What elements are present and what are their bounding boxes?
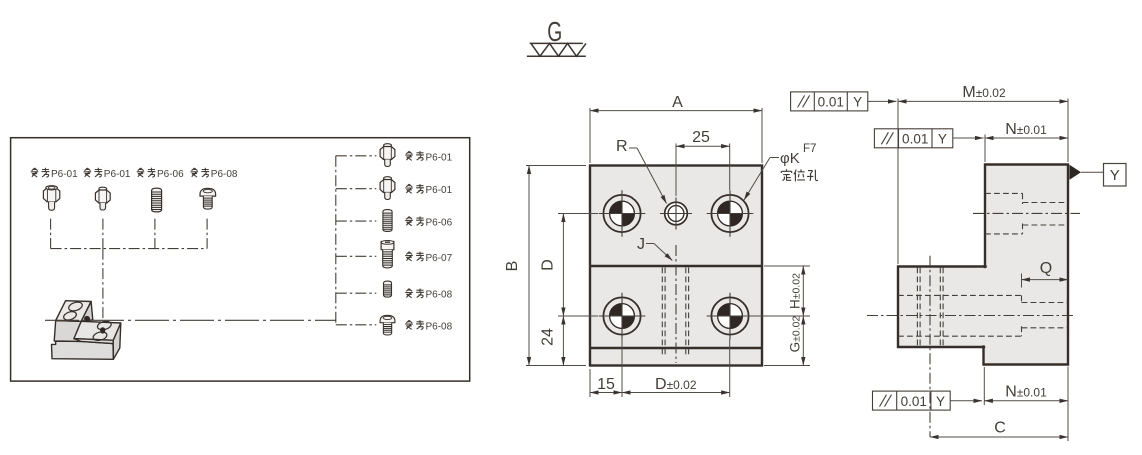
- svg-text:G±0.02: G±0.02: [788, 315, 803, 352]
- svg-text:P6-01: P6-01: [51, 169, 78, 180]
- svg-text:A: A: [672, 94, 683, 111]
- svg-text:B: B: [504, 261, 521, 272]
- svg-text:J: J: [637, 236, 645, 253]
- svg-text:D±0.02: D±0.02: [655, 376, 697, 393]
- svg-text:P6-07: P6-07: [426, 253, 453, 264]
- svg-text:P6-08: P6-08: [426, 290, 453, 301]
- svg-text:P6-08: P6-08: [211, 169, 238, 180]
- svg-text:F7: F7: [803, 143, 816, 155]
- svg-text:P6-01: P6-01: [426, 152, 453, 163]
- svg-text:φK: φK: [780, 150, 800, 167]
- svg-text:25: 25: [692, 129, 710, 146]
- svg-text:H±0.02: H±0.02: [788, 273, 803, 309]
- svg-text:0.01: 0.01: [818, 95, 844, 110]
- svg-text:P6-08: P6-08: [426, 321, 453, 332]
- svg-text:Y: Y: [938, 132, 947, 147]
- svg-text:Q: Q: [1040, 260, 1052, 277]
- svg-text:N±0.01: N±0.01: [1005, 384, 1047, 401]
- svg-text:M±0.02: M±0.02: [962, 84, 1006, 101]
- svg-text:Y: Y: [1110, 167, 1120, 184]
- svg-text:C: C: [994, 420, 1006, 437]
- svg-text:Y: Y: [936, 394, 945, 409]
- svg-text:D: D: [540, 259, 557, 271]
- svg-text:P6-06: P6-06: [426, 218, 453, 229]
- svg-text:P6-01: P6-01: [426, 185, 453, 196]
- svg-text:0.01: 0.01: [901, 394, 927, 409]
- svg-text:15: 15: [597, 376, 615, 393]
- svg-text:24: 24: [540, 328, 557, 346]
- svg-text:N±0.01: N±0.01: [1005, 121, 1047, 138]
- svg-text:P6-01: P6-01: [104, 169, 131, 180]
- svg-text:Y: Y: [853, 95, 862, 110]
- svg-text:0.01: 0.01: [902, 132, 928, 147]
- svg-text:P6-06: P6-06: [157, 169, 184, 180]
- svg-text:R: R: [616, 138, 628, 155]
